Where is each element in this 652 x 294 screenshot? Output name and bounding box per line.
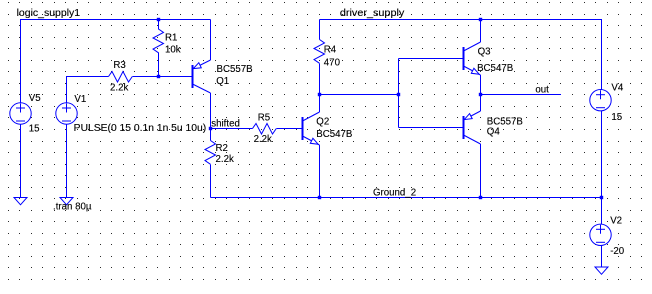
voltage source V4 (590, 90, 611, 111)
wire node shifted to R5 (211, 128, 253, 130)
wire V5 top lead (20, 19, 22, 104)
svg-text:Q4: Q4 (487, 127, 501, 138)
resistor R1 (153, 29, 164, 53)
wire V5 bottom lead to ground (20, 124, 22, 198)
wire V4 top lead (601, 19, 603, 90)
wire drive node to bases (320, 94, 399, 96)
svg-text:R1: R1 (165, 32, 177, 43)
svg-text:15: 15 (611, 112, 622, 123)
svg-text:shifted: shifted (211, 119, 240, 130)
wire Ground_2 bottom rail (211, 197, 602, 199)
junction R1 / R3 / Q1 base (157, 75, 160, 78)
junction R1 top / logic rail (157, 18, 160, 21)
wire V1 to R3 (66, 76, 109, 78)
transistor Q1 (193, 60, 211, 93)
wire Q1 emitter to logic rail (210, 20, 212, 61)
svg-text:BC547B: BC547B (477, 63, 513, 74)
wire R1 bottom stub (158, 53, 160, 77)
transistor Q3 (464, 42, 481, 75)
wire V1 bottom lead to ground (66, 124, 68, 198)
svg-text:V5: V5 (29, 93, 41, 104)
junction Q4 collector / ground rail (479, 196, 482, 199)
transistor Q2 (303, 112, 320, 145)
svg-text:BC557B: BC557B (217, 64, 253, 75)
junction out node (479, 93, 482, 96)
wire Q2 emitter to ground rail (319, 145, 321, 198)
wire to Q3 base (399, 58, 464, 60)
svg-text:Ground_2: Ground_2 (373, 188, 416, 199)
wire R5 to Q2 base (277, 128, 303, 130)
svg-text:V2: V2 (610, 216, 622, 227)
wire R2 bottom stub (210, 165, 212, 198)
ground symbol below V5 (14, 198, 27, 205)
svg-text:-20: -20 (610, 246, 625, 257)
wire R3 to Q1 base (133, 76, 193, 78)
wire Q4 emitter to out node (480, 95, 482, 112)
wire driver_supply top rail (320, 19, 602, 21)
svg-text:2.2k: 2.2k (110, 82, 128, 93)
wire V1 top lead (66, 77, 68, 104)
svg-text:R2: R2 (216, 143, 228, 154)
svg-text:PULSE(0 15 0.1n 1n 5u 10u): PULSE(0 15 0.1n 1n 5u 10u) (74, 123, 207, 134)
wire Q1 collector to node shifted (210, 93, 212, 129)
resistor R4 (314, 40, 325, 64)
svg-text:2.2k: 2.2k (254, 134, 272, 145)
svg-text:V1: V1 (74, 94, 86, 105)
junction R4 / Q2 collector (318, 93, 321, 96)
svg-text:10k: 10k (165, 45, 181, 56)
svg-text:Q2: Q2 (316, 116, 329, 127)
wire R2 top stub (210, 129, 212, 141)
svg-text:BC547B: BC547B (316, 129, 352, 140)
ground symbol below V1 (60, 198, 73, 205)
junction node shifted (209, 127, 212, 130)
voltage source V5 (10, 103, 31, 124)
wire V4 to V2 (601, 111, 603, 225)
transistor Q4 (464, 111, 481, 144)
svg-text:Q1: Q1 (216, 76, 229, 87)
svg-text:470: 470 (324, 58, 341, 69)
wire base tie vertical (398, 59, 400, 128)
svg-text:R4: R4 (324, 45, 337, 56)
wire Q3 emitter to out node (480, 75, 482, 95)
wire logic_supply1 top rail (21, 19, 211, 21)
voltage source V1 (56, 103, 77, 124)
svg-text:V4: V4 (611, 82, 623, 93)
wire Q2 collector stub (319, 95, 321, 113)
wire out (481, 94, 562, 96)
svg-text:R5: R5 (258, 112, 270, 123)
resistor R2 (205, 141, 216, 165)
svg-text:2.2k: 2.2k (216, 154, 234, 165)
junction base tie (397, 93, 400, 96)
junction Q2 emitter / ground rail (318, 196, 321, 199)
voltage source V2 (590, 224, 611, 245)
junction V supply / ground rail (600, 196, 603, 199)
junction Q3 collector / driver rail (479, 18, 482, 21)
svg-text:R3: R3 (113, 60, 125, 71)
wire V2 bottom lead to ground (601, 245, 603, 267)
wire Q4 collector to ground rail (480, 144, 482, 198)
resistor R3 (109, 72, 133, 83)
wire Q3 collector to driver rail (480, 20, 482, 43)
svg-text:logic_supply1: logic_supply1 (17, 8, 81, 19)
svg-text:driver_supply: driver_supply (340, 8, 405, 19)
wire R1 top stub (158, 20, 160, 30)
resistor R5 (253, 124, 277, 135)
svg-text:out: out (535, 85, 549, 96)
wire to Q4 base (399, 127, 464, 129)
svg-text:15: 15 (29, 124, 40, 135)
ground symbol below V2 (595, 267, 608, 274)
svg-text:Q3: Q3 (478, 47, 491, 58)
wire R4 bottom stub (319, 64, 321, 95)
wire R4 top stub (319, 20, 321, 40)
svg-text:.tran 80µ: .tran 80µ (53, 201, 92, 212)
